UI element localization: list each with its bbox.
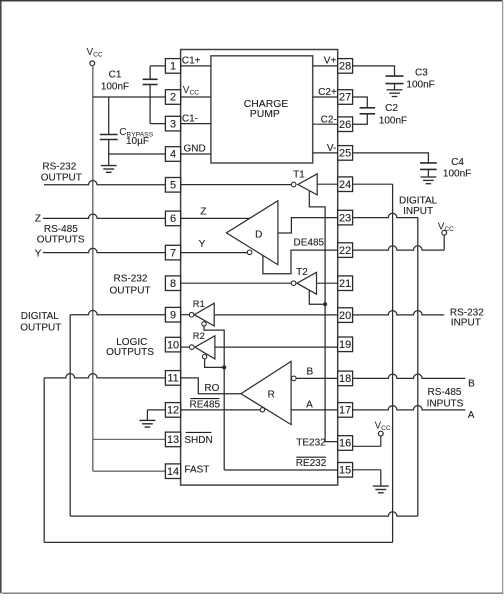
svg-text:5: 5 — [170, 180, 176, 192]
capacitor CBYPASS — [100, 135, 118, 140]
Z internal label — [200, 207, 206, 218]
svg-text:OUTPUT: OUTPUT — [41, 172, 82, 183]
wire pin 23 to loop1 — [353, 213, 418, 217]
junction RE232/R2 — [222, 365, 226, 369]
svg-text:11: 11 — [167, 373, 178, 385]
wire T1 enable — [309, 191, 337, 442]
ground (pin 15) — [373, 486, 389, 493]
wire pin 9 to loop1 corner — [70, 310, 165, 314]
wire Y internal — [181, 252, 248, 254]
wire C1 top lead — [149, 66, 151, 79]
ground (C3) — [387, 84, 403, 97]
wire RS-232 output to pin 5 — [44, 181, 165, 185]
wire C1 bottom lead — [149, 85, 151, 124]
wire loop2 right vertical — [392, 184, 394, 542]
svg-text:RS-232: RS-232 — [114, 273, 148, 284]
ground (pin12 RE485) — [140, 420, 156, 427]
svg-text:RS-232: RS-232 — [42, 161, 76, 172]
wire VCC to pin 14 — [93, 470, 166, 472]
LOGIC OUTPUTS label — [106, 337, 154, 358]
pin 12 box — [165, 403, 180, 418]
svg-text:12: 12 — [167, 405, 179, 417]
RO label — [204, 383, 219, 394]
DIGITAL OUTPUT label — [20, 311, 61, 333]
wire R2 enable to RE232 rail — [205, 359, 225, 368]
wire VCC vertical rail — [92, 66, 94, 440]
bubble R enable RE485 — [260, 408, 264, 412]
svg-text:INPUT: INPUT — [451, 318, 481, 329]
svg-text:RE485: RE485 — [190, 400, 221, 411]
wire VCC rail to pin14 row — [92, 439, 94, 471]
GND pin label — [184, 144, 206, 155]
svg-text:C1+: C1+ — [182, 56, 201, 67]
wire V- to C4 — [313, 153, 429, 163]
svg-text:4: 4 — [170, 149, 176, 161]
wire loop1 right vertical — [417, 218, 419, 516]
ground (C4) — [421, 169, 437, 183]
wire C2- from pin 26 — [313, 114, 368, 124]
svg-text:B: B — [468, 378, 475, 389]
pin 19 box — [338, 337, 353, 352]
svg-text:13: 13 — [167, 434, 179, 446]
svg-text:A: A — [468, 410, 475, 421]
pin 8 box — [165, 276, 180, 291]
pin 28 box — [338, 59, 353, 74]
svg-text:10: 10 — [167, 339, 179, 351]
svg-text:21: 21 — [339, 278, 351, 290]
wire VCC to pin 2 — [93, 96, 211, 98]
svg-text:17: 17 — [339, 405, 351, 417]
op-amp T1 (RS-232 transmitter) — [291, 169, 317, 195]
C2- pin label — [321, 114, 337, 125]
RS-232 INPUT label — [450, 307, 484, 328]
wire pin 17 to A — [353, 406, 466, 410]
svg-text:C4: C4 — [451, 157, 464, 168]
RS-485 INPUTS label — [427, 387, 464, 409]
bubble D inverting output — [247, 250, 252, 255]
wire Z internal — [181, 217, 250, 219]
wire pin1 C1+ row — [150, 65, 211, 67]
A terminal label — [468, 410, 475, 421]
svg-text:C2+: C2+ — [318, 87, 337, 98]
svg-text:RS-485: RS-485 — [44, 224, 78, 235]
op-amp R1 (RS-232 receiver) — [189, 298, 214, 326]
svg-text:1: 1 — [170, 61, 176, 73]
wire C2+ from pin 27 — [313, 97, 368, 108]
svg-text:Y: Y — [35, 249, 42, 260]
svg-text:3: 3 — [170, 118, 176, 130]
capacitor C1 — [143, 79, 158, 84]
wire DE485 enable — [263, 250, 338, 274]
wire T2 enable — [309, 290, 325, 304]
wire R1 enable to RE232 rail — [204, 326, 224, 470]
svg-text:R2: R2 — [193, 330, 205, 341]
wire pin 16 to VCC — [353, 436, 381, 447]
wire R2 output to pin 19 — [215, 346, 338, 348]
svg-text:RE232: RE232 — [296, 458, 327, 469]
wire CBYPASS top lead — [108, 97, 110, 135]
pin 27 box — [338, 90, 353, 105]
pin 4 box — [165, 147, 180, 162]
wire pin4 GND row — [109, 153, 211, 155]
pin 23 box — [338, 210, 353, 225]
wire RE232 internal to pin 15 — [224, 469, 338, 471]
pin 10 box — [165, 337, 180, 352]
pin 3 box — [165, 116, 180, 131]
FAST label — [184, 464, 209, 475]
svg-text:25: 25 — [339, 148, 351, 160]
C2 label — [379, 103, 407, 127]
junction TE232/T2 — [323, 302, 327, 306]
svg-text:D: D — [255, 230, 262, 241]
svg-text:OUTPUTS: OUTPUTS — [106, 347, 154, 358]
op-amp R (RS-485 receiver) — [241, 361, 291, 424]
svg-text:FAST: FAST — [184, 464, 209, 475]
C4 label — [443, 157, 471, 180]
svg-text:DIGITAL: DIGITAL — [399, 196, 438, 207]
pin 22 box — [338, 243, 353, 258]
svg-text:OUTPUT: OUTPUT — [20, 322, 61, 333]
charge pump block — [211, 56, 313, 163]
pin 2 box — [165, 90, 180, 105]
VCC pin label — [183, 85, 199, 97]
RS-232 OUTPUT label (pin8) — [109, 273, 150, 296]
svg-text:RS-485: RS-485 — [428, 387, 462, 398]
B internal label — [306, 366, 313, 377]
wire pin 18 to B — [353, 374, 466, 378]
svg-text:18: 18 — [339, 373, 351, 385]
wire loop2 bottom — [44, 541, 392, 543]
svg-text:100nF: 100nF — [443, 168, 471, 179]
pin 6 box — [165, 211, 180, 226]
wire loop2 left vertical — [43, 378, 45, 543]
IC U1 body outline — [181, 50, 338, 486]
wire R1 output to pin 20 and RS-232 input — [214, 311, 444, 315]
C2+ pin label — [318, 87, 337, 98]
svg-text:SHDN: SHDN — [184, 435, 212, 446]
svg-text:DE485: DE485 — [294, 238, 325, 249]
pin 14 box — [165, 464, 180, 479]
svg-text:27: 27 — [339, 92, 351, 104]
Y terminal label — [35, 249, 42, 260]
TE232 label — [296, 438, 326, 449]
wire RO from pin 11 — [181, 378, 241, 394]
DE485 label — [294, 238, 325, 249]
pin 16 box — [338, 436, 353, 451]
pin 17 box — [338, 403, 353, 418]
svg-text:20: 20 — [339, 310, 351, 322]
RS-485 OUTPUTS label — [37, 224, 85, 246]
svg-text:GND: GND — [184, 144, 206, 155]
pin 20 box — [338, 308, 353, 323]
capacitor C4 — [420, 163, 437, 170]
wire V+ to C3 — [313, 66, 395, 76]
svg-text:T2: T2 — [296, 267, 308, 278]
svg-text:28: 28 — [339, 61, 351, 73]
pin 18 box — [338, 371, 353, 386]
svg-text:Z: Z — [200, 207, 206, 218]
svg-text:23: 23 — [339, 212, 351, 224]
bubble R1 enable — [202, 322, 206, 326]
bubble R input B — [292, 376, 297, 381]
pin 25 box — [338, 146, 353, 161]
C1 value label — [101, 69, 129, 92]
svg-text:24: 24 — [339, 179, 351, 191]
A internal label — [306, 400, 313, 411]
CBYPASS label — [119, 127, 153, 147]
wire pin 11 to loop2 corner — [44, 374, 165, 378]
wire pin 12 to ground — [147, 410, 165, 421]
ground (CBYPASS) — [101, 154, 117, 172]
svg-text:INPUTS: INPUTS — [427, 398, 464, 409]
op-amp T2 (RS-232 transmitter) — [291, 267, 316, 294]
wire pin9 to R1 input — [181, 314, 190, 316]
RE485 label — [190, 399, 221, 411]
svg-text:100nF: 100nF — [379, 116, 407, 127]
wire VCC to pin 13 — [93, 438, 166, 440]
pin 1 box — [165, 59, 180, 74]
svg-text:100nF: 100nF — [406, 80, 434, 91]
svg-text:6: 6 — [170, 213, 176, 225]
V- pin label — [327, 143, 336, 154]
wire pin 15 to ground — [353, 470, 381, 486]
svg-text:PUMP: PUMP — [250, 109, 280, 120]
V+ pin label — [324, 56, 337, 67]
svg-text:C3: C3 — [415, 68, 428, 79]
svg-text:C1-: C1- — [182, 113, 198, 124]
capacitor C2 — [360, 108, 376, 114]
svg-text:26: 26 — [339, 119, 351, 131]
op-amp D (RS-485 driver) — [226, 201, 278, 265]
wire pin 22 to VCC — [353, 235, 445, 250]
svg-text:8: 8 — [170, 278, 176, 290]
svg-text:R1: R1 — [193, 298, 205, 309]
wire CBYPASS bottom lead — [108, 140, 110, 155]
pin 9 box — [165, 307, 180, 322]
VCC terminal (pin 22) — [438, 222, 454, 236]
svg-text:100nF: 100nF — [101, 81, 129, 92]
capacitor C3 — [386, 76, 404, 84]
svg-text:DIGITAL: DIGITAL — [21, 311, 60, 322]
svg-text:16: 16 — [339, 438, 351, 450]
pin 21 box — [338, 276, 353, 291]
svg-text:INPUT: INPUT — [403, 206, 433, 217]
svg-text:OUTPUT: OUTPUT — [109, 285, 150, 296]
svg-text:OUTPUTS: OUTPUTS — [37, 235, 85, 246]
svg-text:14: 14 — [167, 466, 179, 478]
svg-text:Y: Y — [199, 239, 206, 250]
wire pin5 to T1 output — [181, 184, 292, 186]
svg-text:C1: C1 — [109, 69, 122, 80]
svg-text:V+: V+ — [324, 56, 337, 67]
svg-text:Z: Z — [35, 214, 41, 225]
svg-text:22: 22 — [339, 245, 351, 257]
svg-text:C2: C2 — [385, 103, 398, 114]
wire pin10 to R2 input — [181, 346, 190, 348]
DIGITAL INPUT label — [399, 196, 438, 218]
wire T1 input to pin 24 — [317, 183, 392, 185]
B terminal label — [468, 378, 475, 389]
C1+ pin label — [182, 56, 201, 67]
pin 5 box — [165, 178, 180, 193]
wire RE485 from pin 12 — [181, 409, 261, 411]
wire Y to pin 7 — [43, 248, 165, 252]
wire T2 input to pin 21 — [317, 282, 338, 284]
wire B internal — [296, 377, 338, 379]
svg-text:TE232: TE232 — [296, 438, 326, 449]
wire pin8 to T2 output — [181, 282, 292, 284]
wire pin3 C1- row — [150, 123, 211, 125]
svg-text:V-: V- — [327, 143, 336, 154]
svg-text:9: 9 — [170, 309, 176, 321]
Y internal label — [199, 239, 206, 250]
svg-text:A: A — [306, 400, 313, 411]
pin 7 box — [165, 245, 180, 260]
C3 label — [406, 68, 434, 91]
wire D input from pin 23 — [278, 218, 338, 233]
svg-text:B: B — [306, 366, 313, 377]
pin 24 box — [338, 177, 353, 192]
Z terminal label — [35, 214, 41, 225]
svg-text:15: 15 — [339, 465, 351, 477]
bubble R2 enable — [202, 355, 206, 359]
pin 15 box — [338, 463, 353, 478]
svg-text:2: 2 — [170, 92, 176, 104]
op-amp R2 (RS-232 receiver) — [190, 330, 215, 359]
svg-text:10µF: 10µF — [126, 136, 149, 147]
SHDN label — [184, 432, 212, 445]
RS-232 OUTPUT label (pin5) — [41, 161, 82, 183]
C1- pin label — [182, 113, 198, 124]
wire loop1 bottom — [70, 512, 418, 516]
pin 11 box — [165, 371, 180, 386]
pin 26 box — [338, 117, 353, 132]
wire A internal — [291, 409, 338, 411]
svg-text:RO: RO — [204, 383, 219, 394]
pin 13 box — [165, 432, 180, 447]
wire loop1 left vertical — [69, 315, 71, 516]
wire Z to pin 6 — [43, 214, 165, 218]
VCC terminal (top left) — [87, 47, 103, 66]
svg-text:T1: T1 — [293, 169, 305, 180]
svg-text:R: R — [268, 389, 275, 400]
svg-text:7: 7 — [170, 247, 176, 259]
VCC terminal (pin 16) — [375, 421, 391, 436]
RE232 label — [296, 457, 327, 469]
svg-text:19: 19 — [339, 339, 351, 351]
